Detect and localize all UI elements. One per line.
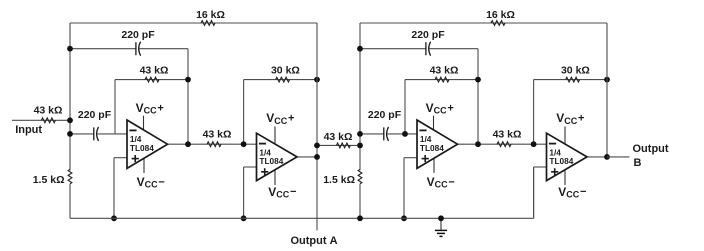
- svg-text:43 kΩ: 43 kΩ: [203, 129, 232, 141]
- resistor 43 kOhm interstage stage 2: [478, 129, 534, 147]
- node Input label: [15, 124, 42, 136]
- wire opamp B minus input stage 1: [244, 143, 257, 145]
- junction plus column on rail stage 1: [111, 215, 117, 221]
- wire opamp B plus input to ground rail stage 1: [244, 167, 257, 218]
- wire feedback column stage 2: [477, 49, 479, 145]
- svg-text:30 kΩ: 30 kΩ: [561, 65, 590, 77]
- svg-text:220 pF: 220 pF: [78, 109, 112, 121]
- wire 30k drop to opamp minus stage 1: [243, 80, 245, 145]
- wire opamp A output stage 2: [458, 143, 479, 145]
- wire feedback column stage 1: [187, 49, 189, 145]
- ground symbol: [435, 215, 447, 236]
- wire input node column stage 2: [359, 23, 361, 170]
- power VCC- pin opamp B stage 2: [558, 170, 586, 199]
- junction feedback cap node stage 2: [357, 46, 363, 52]
- wire opamp A plus input to ground rail stage 2: [404, 158, 417, 219]
- svg-text:43 kΩ: 43 kΩ: [493, 129, 522, 141]
- svg-text:220 pF: 220 pF: [368, 109, 402, 121]
- resistor 30 kOhm feedback stage 2: [534, 65, 607, 82]
- svg-text:B: B: [634, 157, 642, 169]
- wire opamp B plus input to ground rail stage 2: [534, 167, 547, 218]
- resistor 1.5 kOhm stage 2: [323, 169, 362, 218]
- svg-text:TL084: TL084: [420, 143, 444, 153]
- op-amp 1/4 TL084 U1 stage 1: [127, 120, 168, 168]
- op-amp 1/4 TL084 U2 stage 1: [257, 133, 298, 180]
- wire Output B lead: [607, 156, 630, 158]
- resistor 43 kOhm feedback stage 1: [115, 65, 188, 82]
- svg-text:Output A: Output A: [290, 235, 337, 247]
- wire opamp A output stage 1: [168, 143, 189, 145]
- resistor 1.5 kOhm stage 1: [33, 169, 72, 218]
- junction opamp A output node stage 1: [185, 141, 191, 147]
- svg-text:220 pF: 220 pF: [411, 29, 445, 41]
- junction 30k at output column stage 1: [314, 77, 320, 83]
- junction opamp B minus node stage 1: [241, 141, 247, 147]
- junction opamp B output node stage 1: [314, 154, 320, 160]
- power VCC+ pin opamp A stage 2: [426, 101, 454, 131]
- op-amp 1/4 TL084 U3 stage 2: [417, 120, 458, 168]
- capacitor 220 pF feedback stage 1: [70, 29, 188, 56]
- junction opamp B output node stage 2: [604, 154, 610, 160]
- node Output B label: [633, 143, 669, 169]
- wire 16k feedback top line stage 1: [70, 22, 317, 24]
- wire output column stage 1: [316, 23, 318, 230]
- junction 30k at output column stage 2: [604, 77, 610, 83]
- resistor 30 kOhm feedback stage 1: [244, 65, 317, 82]
- power VCC+ pin opamp A stage 1: [136, 101, 164, 131]
- junction 43k feedback at output column stage 1: [185, 77, 191, 83]
- node Output A label: [290, 235, 337, 247]
- power VCC+ pin opamp B stage 1: [266, 111, 294, 144]
- svg-text:Output: Output: [633, 143, 669, 155]
- power VCC- pin opamp A stage 1: [137, 158, 165, 189]
- svg-text:43 kΩ: 43 kΩ: [34, 105, 63, 117]
- junction input node: [67, 117, 73, 123]
- input lead wire: [12, 119, 70, 121]
- resistor 16 kOhm stage 2: [486, 9, 515, 26]
- svg-text:1.5 kΩ: 1.5 kΩ: [33, 174, 65, 186]
- junction 43k feedback at output column stage 2: [475, 77, 481, 83]
- svg-text:Input: Input: [15, 124, 42, 136]
- junction opamp B minus node stage 2: [531, 141, 537, 147]
- capacitor 220 pF series stage 1: [70, 109, 127, 141]
- junction plus column on rail stage 2: [401, 215, 407, 221]
- junction feedback tee at minus line stage 2: [402, 131, 408, 137]
- wire 43k feedback drop to minus input stage 2: [404, 80, 406, 134]
- resistor 43 kOhm input: [34, 105, 63, 123]
- power VCC- pin opamp B stage 1: [268, 170, 296, 199]
- capacitor 220 pF series stage 2: [360, 109, 417, 141]
- resistor 16 kOhm stage 1: [196, 9, 225, 26]
- svg-text:43 kΩ: 43 kΩ: [324, 131, 353, 143]
- svg-text:43 kΩ: 43 kΩ: [430, 65, 459, 77]
- wire output column stage 2: [606, 23, 608, 157]
- svg-text:TL084: TL084: [549, 156, 573, 166]
- wire 16k feedback top line stage 2: [360, 22, 607, 24]
- wire input node column stage 1: [69, 23, 71, 170]
- op-amp 1/4 TL084 U4 stage 2: [547, 133, 588, 180]
- power VCC- pin opamp A stage 2: [427, 158, 455, 189]
- wire opamp B minus input stage 2: [534, 143, 547, 145]
- resistor 43 kOhm link to stage 2: [317, 131, 360, 148]
- wire opamp B output stage 2: [587, 156, 607, 158]
- junction stage 2 1.5k on rail: [357, 215, 363, 221]
- junction feedback cap node stage 1: [67, 46, 73, 52]
- junction opamp A output node stage 2: [475, 141, 481, 147]
- wire ground rail: [70, 167, 534, 218]
- wire 30k drop to opamp minus stage 2: [533, 80, 535, 145]
- svg-text:43 kΩ: 43 kΩ: [140, 65, 169, 77]
- resistor 43 kOhm interstage stage 1: [188, 129, 244, 147]
- svg-text:TL084: TL084: [259, 156, 283, 166]
- junction series cap at input node stage 1: [67, 131, 73, 137]
- resistor 43 kOhm feedback stage 2: [405, 65, 478, 82]
- junction link resistor at stage 2 input node: [357, 143, 363, 149]
- svg-text:30 kΩ: 30 kΩ: [271, 65, 300, 77]
- svg-text:16 kΩ: 16 kΩ: [486, 9, 515, 21]
- wire 43k feedback drop to minus input stage 1: [114, 80, 116, 134]
- power VCC+ pin opamp B stage 2: [556, 111, 584, 144]
- svg-text:TL084: TL084: [130, 143, 154, 153]
- svg-text:16 kΩ: 16 kΩ: [196, 9, 225, 21]
- svg-text:220 pF: 220 pF: [121, 29, 155, 41]
- svg-text:1.5 kΩ: 1.5 kΩ: [323, 174, 355, 186]
- junction series cap at input node stage 2: [357, 131, 363, 137]
- wire opamp A plus input to ground rail stage 1: [114, 158, 127, 219]
- capacitor 220 pF feedback stage 2: [360, 29, 478, 56]
- junction opamp B plus column on rail stage 1: [241, 215, 247, 221]
- junction link resistor at output column: [314, 143, 320, 149]
- wire opamp B output stage 1: [297, 156, 317, 158]
